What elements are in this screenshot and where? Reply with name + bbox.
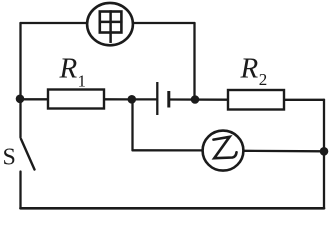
battery plate short xyxy=(167,91,170,108)
meter U1 (jia) circle xyxy=(87,3,133,45)
wire R2 to right corner xyxy=(284,99,324,101)
wire switch lower contact vertical xyxy=(19,172,21,209)
battery plate long xyxy=(156,82,158,115)
switch S blade xyxy=(21,139,35,170)
svg-text:1: 1 xyxy=(78,72,87,91)
svg-text:S: S xyxy=(3,144,16,170)
wire battery to node B xyxy=(170,98,228,100)
svg-text:2: 2 xyxy=(259,70,268,89)
wire node A to R1 xyxy=(21,98,49,100)
resistor R2 xyxy=(228,90,284,110)
wire right branch vertical (to node B) xyxy=(193,23,195,100)
meter U2 (yi) glyph 乙 xyxy=(214,137,237,158)
node C junction dot xyxy=(128,95,137,104)
node D junction dot xyxy=(320,147,329,156)
wire top-right horizontal xyxy=(133,22,195,24)
node A junction dot xyxy=(16,95,25,104)
svg-text:R: R xyxy=(240,53,259,85)
wire left vertical (top corner to switch) xyxy=(19,23,21,138)
meter U1 (jia) glyph 甲 xyxy=(100,12,122,42)
wire bottom horizontal xyxy=(21,207,325,210)
wire node C drop (R1 right to meter yi wire) xyxy=(131,99,133,150)
resistor R1 xyxy=(48,90,104,109)
wire top-left horizontal xyxy=(21,22,88,24)
node B junction dot xyxy=(191,95,200,104)
meter U2 (yi) circle xyxy=(203,131,244,171)
svg-text:R: R xyxy=(59,53,78,85)
wire meter yi right to node D xyxy=(245,150,325,153)
wire right vertical xyxy=(323,100,325,208)
wire R1 to battery xyxy=(104,98,156,100)
wire to meter yi left xyxy=(133,149,203,151)
